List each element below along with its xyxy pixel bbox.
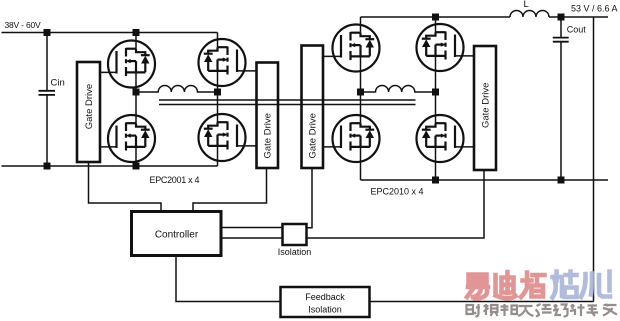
wire: Q6 drain stem: [360, 92, 362, 123]
gate drive U2 (primary right): [257, 63, 279, 169]
wire: gate lead Q1: [100, 71, 117, 73]
wire: controller to isolation upper: [221, 227, 283, 229]
svg-text:Feedback: Feedback: [305, 292, 345, 302]
wire: gate lead Q5: [323, 55, 341, 57]
wire: Q3 source stem: [217, 71, 219, 92]
watermark logo 易迪拓培训: [467, 272, 610, 299]
wire: Q1 source stem: [135, 72, 137, 92]
gate drive U4 (secondary right): [474, 46, 496, 170]
capacitor Cout: [553, 38, 569, 42]
wire: Q1 drain stem: [135, 33, 137, 49]
node: phase B junction: [214, 89, 221, 96]
feedback isolation: [281, 287, 370, 317]
node: Q7 drain junction: [432, 14, 439, 21]
wire: Q6 source stem: [360, 147, 362, 180]
isolation: [283, 224, 307, 245]
node: phase D junction: [432, 89, 439, 96]
transistor Q8 (secondary right bottom, mirrored): [417, 115, 464, 162]
wire: output right vertical: [593, 17, 595, 302]
wire: feedback isolation to output: [370, 301, 594, 303]
svg-text:Gate Drive: Gate Drive: [84, 84, 95, 129]
capacitor Cin: [39, 91, 56, 95]
svg-text:Gate Drive: Gate Drive: [263, 113, 274, 158]
node: Q2 source junction: [133, 163, 140, 170]
wire: primary bottom rail: [2, 165, 218, 167]
gate drive U3 (secondary left): [302, 46, 324, 169]
wire: gate lead Q3: [237, 70, 257, 72]
wire: Cin branch lower: [46, 95, 48, 166]
wire: secondary bottom rail: [361, 179, 609, 181]
wire: gate drive U1 to controller: [89, 162, 162, 212]
transformer T1 core lines: [159, 100, 416, 105]
svg-text:L: L: [524, 0, 529, 10]
wire: Cout upper: [560, 17, 562, 38]
svg-text:Gate Drive: Gate Drive: [308, 113, 319, 158]
wire: Q7 drain stem: [435, 17, 437, 32]
wire: Cin branch upper: [46, 33, 48, 91]
node: output bottom junction: [558, 177, 565, 184]
svg-text:EPC2010 x 4: EPC2010 x 4: [371, 187, 424, 197]
svg-text:Cout: Cout: [567, 25, 587, 35]
svg-text:Cin: Cin: [51, 78, 65, 89]
wire: controller to isolation lower: [221, 237, 283, 239]
node: junction input bottom: [44, 163, 51, 170]
wire: primary top rail: [2, 32, 218, 34]
wire: gate lead Q6: [323, 146, 341, 148]
watermark slogan 射频和天线设计专家: [467, 304, 618, 317]
transistor Q2 (primary left bottom): [108, 115, 155, 162]
wire: gate lead Q2: [100, 146, 117, 148]
svg-text:EPC2001 x 4: EPC2001 x 4: [150, 175, 200, 185]
node: Q1 drain junction: [133, 29, 140, 36]
node: phase C junction: [357, 89, 364, 96]
node: junction input top: [44, 29, 51, 36]
svg-text:38V - 60V: 38V - 60V: [5, 20, 42, 30]
node: Q8 source junction: [432, 177, 439, 184]
wire: Q5 drain stem: [360, 17, 362, 33]
wire: isolation to gate drive U4: [307, 170, 485, 238]
wire: gate lead Q8: [455, 146, 474, 148]
svg-text:Isolation: Isolation: [278, 247, 312, 257]
wire: Q5 source stem: [360, 56, 362, 92]
wire: Cout lower: [560, 42, 562, 180]
svg-text:53 V / 6.6 A: 53 V / 6.6 A: [571, 4, 618, 14]
transistor Q4 (primary right bottom, mirrored): [199, 114, 246, 161]
wire: Q4 source stem: [217, 146, 219, 166]
inductor L (output): [510, 11, 549, 17]
wire: gate drive U3 to isolation: [307, 168, 313, 228]
wire: secondary top rail right of L: [549, 16, 608, 18]
transistor Q3 (primary right top, mirrored): [199, 39, 246, 86]
wire: controller to feedback isolation: [176, 256, 281, 302]
controller: [132, 212, 222, 256]
wire: Q7 source stem: [435, 56, 437, 92]
transformer T1 primary winding: [140, 85, 215, 92]
wire: Q8 drain stem: [435, 92, 437, 123]
transistor Q5 (secondary left top): [333, 25, 380, 72]
wire: gate lead Q7: [455, 55, 474, 57]
node: output top junction: [558, 14, 565, 21]
svg-text:Isolation: Isolation: [308, 305, 342, 315]
transistor Q6 (secondary left bottom): [333, 115, 380, 162]
wire: Q2 drain stem: [135, 92, 137, 123]
wire: secondary top rail left of L: [361, 16, 511, 18]
wire: Q4 drain stem: [217, 92, 219, 122]
svg-text:Gate Drive: Gate Drive: [480, 83, 491, 128]
wire: Q8 source stem: [435, 147, 437, 180]
transistor Q1 (primary left top): [108, 41, 155, 88]
gate drive U1 (primary left): [77, 62, 100, 162]
transistor Q7 (secondary right top, mirrored): [417, 24, 464, 71]
wire: gate lead Q4: [237, 145, 257, 147]
wire: Q3 drain stem: [217, 33, 219, 48]
svg-text:Controller: Controller: [155, 230, 199, 241]
node: phase A junction: [133, 89, 140, 96]
wire: Q2 source stem: [135, 147, 137, 166]
wire: gate drive U2 to controller: [193, 168, 267, 212]
transformer T1 secondary winding: [364, 85, 432, 92]
